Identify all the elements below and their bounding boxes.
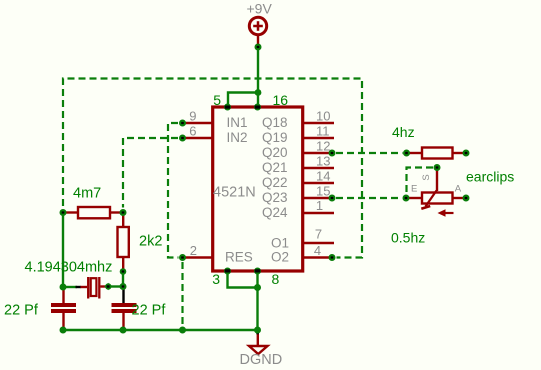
junction 4hz left — [403, 150, 410, 157]
capacitor C1 22Pf left — [51, 289, 76, 329]
net N$2 dashed: IN2 to 4m7 right — [123, 138, 178, 208]
svg-text:Q21: Q21 — [262, 160, 288, 175]
svg-text:4m7: 4m7 — [73, 186, 101, 202]
pin 6 IN2 — [184, 137, 212, 139]
svg-text:Q18: Q18 — [262, 115, 288, 130]
svg-text:Q20: Q20 — [262, 145, 288, 160]
junction pot S — [434, 164, 441, 171]
svg-text:E: E — [411, 183, 417, 194]
junction rail left — [60, 327, 67, 334]
junction pin3/8 joint — [254, 284, 261, 291]
pin 13 Q21 — [304, 167, 335, 169]
svg-text:14: 14 — [316, 169, 330, 184]
svg-text:O1: O1 — [271, 236, 289, 251]
svg-text:DGND: DGND — [240, 352, 283, 368]
power +9V symbol — [249, 17, 266, 48]
wire pin3 to pin8 joint — [228, 271, 258, 288]
pin 7 O1 — [304, 242, 335, 244]
pin 2 RES — [184, 256, 212, 258]
black lead C2 top — [122, 288, 124, 303]
junction crystal right node — [120, 283, 127, 290]
capacitor C2 22Pf right — [112, 303, 137, 329]
junction pin6 — [179, 135, 186, 142]
svg-text:11: 11 — [316, 124, 330, 139]
pin 10 Q18 — [304, 122, 335, 124]
svg-text:7: 7 — [315, 227, 322, 242]
junction 4m7 right — [120, 209, 127, 216]
svg-text:A: A — [455, 184, 462, 195]
junction pin12 Q20 — [329, 150, 336, 157]
pin 11 Q19 — [304, 137, 335, 139]
wire crystal left stub — [63, 286, 77, 288]
svg-text:Q19: Q19 — [262, 130, 288, 145]
wire 2k2 bottom to crystal node — [122, 269, 124, 288]
svg-text:4: 4 — [314, 243, 321, 258]
pin 14 Q22 — [304, 182, 335, 184]
svg-text:9: 9 — [189, 109, 196, 124]
svg-text:+9V: +9V — [247, 1, 273, 17]
svg-text:0.5hz: 0.5hz — [391, 230, 425, 246]
resistor R2 2k2 — [118, 213, 129, 270]
svg-text:1: 1 — [316, 198, 323, 213]
wire crystal right stub — [109, 285, 123, 287]
ground DGND symbol — [249, 331, 268, 354]
net N$3 dashed: IN1 to RES — [168, 123, 179, 258]
junction pin15 Q23 — [329, 195, 336, 202]
svg-text:5: 5 — [213, 92, 221, 108]
junction pot E — [403, 195, 410, 202]
junction rail DGND — [254, 327, 261, 334]
pin 1 Q24 — [304, 212, 335, 214]
junction pin8 bottom — [254, 268, 261, 275]
net N$4 dashed: Q20 to 4hz resistor — [336, 152, 403, 154]
svg-text:22 Pf: 22 Pf — [132, 303, 167, 319]
junction pot A — [463, 195, 470, 202]
junction 4hz right — [463, 150, 470, 157]
pin 12 Q20 — [304, 152, 335, 154]
net N$6 dashed: pot S to pot E — [407, 168, 434, 195]
black tick crystal left pin — [76, 286, 82, 288]
svg-text:S: S — [421, 174, 432, 180]
svg-text:IN1: IN1 — [227, 115, 248, 130]
junction +9V branch — [255, 89, 262, 96]
svg-text:2k2: 2k2 — [139, 234, 162, 250]
svg-text:2: 2 — [190, 243, 197, 258]
svg-text:O2: O2 — [271, 250, 289, 265]
junction pin4 O2 — [329, 254, 336, 261]
net N$3 dashed: RES down to ground rail — [181, 262, 183, 326]
svg-text:16: 16 — [273, 92, 289, 108]
svg-text:4.194304mhz: 4.194304mhz — [25, 260, 113, 276]
wire ground bottom rail — [63, 329, 258, 331]
junction pin16 top — [254, 104, 261, 111]
svg-text:4hz: 4hz — [392, 124, 415, 140]
svg-text:3: 3 — [212, 271, 220, 287]
junction rail dashed — [179, 327, 186, 334]
potentiometer R4 earclips trimmer — [407, 169, 465, 217]
svg-text:IN2: IN2 — [227, 130, 248, 145]
svg-text:10: 10 — [316, 109, 330, 124]
svg-text:12: 12 — [316, 139, 330, 154]
junction +9V pin — [255, 44, 262, 51]
svg-text:15: 15 — [316, 184, 330, 199]
pin 4 O2 — [304, 256, 335, 258]
svg-text:8: 8 — [272, 271, 280, 287]
junction pin9 — [179, 120, 186, 127]
svg-text:22 Pf: 22 Pf — [4, 303, 39, 319]
junction crystal left — [60, 284, 67, 291]
wire branch to IC pin 5 — [228, 93, 258, 107]
wire +9V down to IC pin 16 — [257, 47, 259, 106]
junction pin3 bottom — [224, 268, 231, 275]
svg-text:4521N: 4521N — [213, 185, 256, 201]
junction 2k2 bottom — [120, 268, 127, 275]
junction crystal pin arrow — [104, 283, 111, 290]
junction pin2 RES — [179, 254, 186, 261]
junction 4m7 left — [60, 209, 67, 216]
wire pin8 down to DGND — [256, 271, 258, 330]
op IC U1 4521N body — [213, 107, 303, 271]
pin 9 IN1 — [184, 122, 212, 124]
net N$5 dashed: Q23 to pot E — [336, 197, 402, 199]
junction rail C2 — [120, 327, 127, 334]
crystal Q1 4.194304mhz — [81, 277, 107, 299]
svg-text:earclips: earclips — [466, 169, 514, 185]
svg-text:Q23: Q23 — [262, 190, 288, 205]
resistor R1 4m7 — [64, 207, 122, 218]
svg-text:RES: RES — [225, 250, 253, 265]
wire 4m7 left down left rail — [62, 213, 64, 289]
junction pin5 top — [224, 104, 231, 111]
svg-text:Q24: Q24 — [262, 205, 288, 220]
pin 15 Q23 — [304, 197, 335, 199]
svg-text:6: 6 — [189, 124, 196, 139]
resistor R3 4hz — [407, 148, 465, 159]
net N$1 dashed: O2 feedback to crystal left — [63, 79, 362, 258]
svg-text:13: 13 — [316, 154, 330, 169]
svg-text:Q22: Q22 — [262, 175, 288, 190]
